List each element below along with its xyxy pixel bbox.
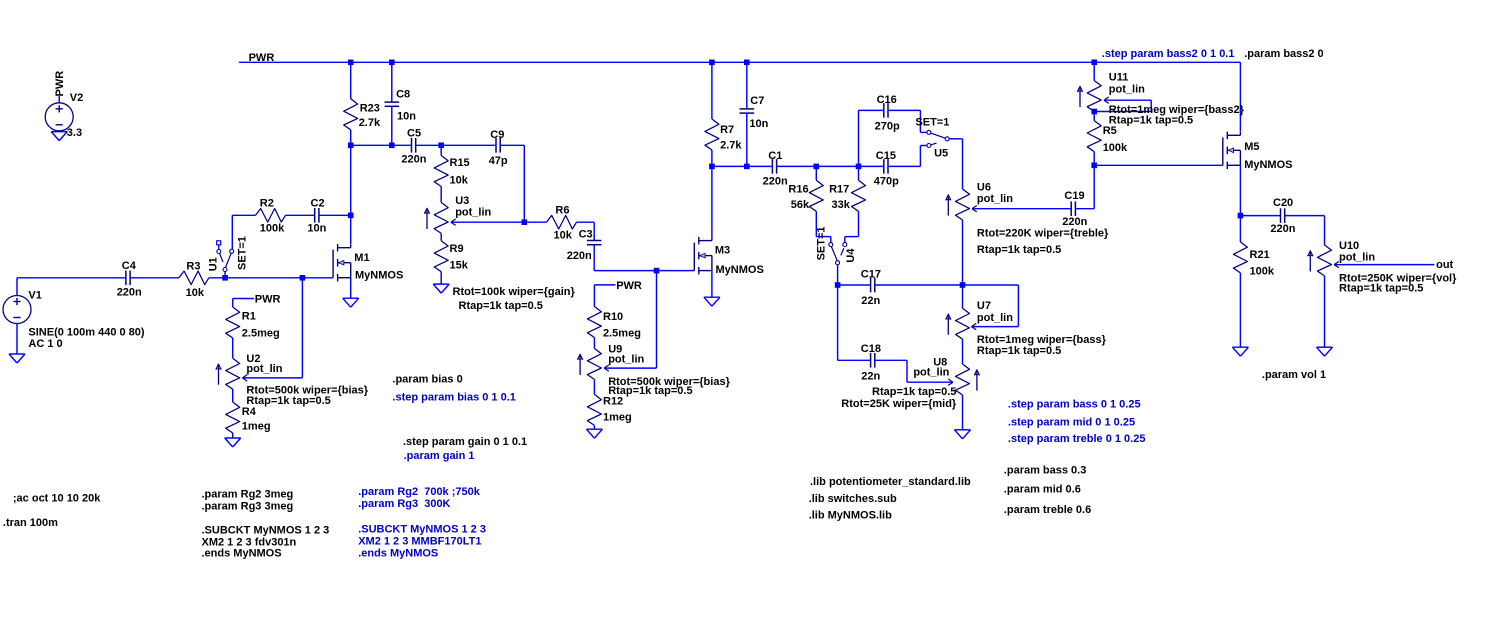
svg-text:pot_lin: pot_lin xyxy=(913,367,949,379)
wire C8 to row xyxy=(391,106,393,145)
svg-text:U4: U4 xyxy=(845,248,857,263)
wire U9 to R12 xyxy=(593,379,595,394)
wire to C15 xyxy=(859,165,884,167)
svg-text:270p: 270p xyxy=(875,120,900,132)
svg-text:C8: C8 xyxy=(396,89,410,101)
svg-text:pot_lin: pot_lin xyxy=(455,206,491,218)
wire PWR top rail xyxy=(239,61,1241,63)
wire PWR stub to R1 xyxy=(232,299,234,308)
resistor R21 xyxy=(1233,242,1247,273)
wire wiper node to R6 xyxy=(524,221,546,223)
svg-text:10k: 10k xyxy=(554,230,573,242)
wire PWR to C7 xyxy=(746,62,748,109)
svg-text:R1: R1 xyxy=(242,310,256,322)
svg-text:100k: 100k xyxy=(260,222,285,234)
resistor R15 xyxy=(434,156,448,187)
wire PWR stub to R10 xyxy=(593,285,595,307)
svg-text:U11: U11 xyxy=(1109,72,1129,84)
wire U11 wiper loop xyxy=(1105,99,1151,101)
svg-text:.lib switches.sub: .lib switches.sub xyxy=(809,493,897,505)
svg-text:15k: 15k xyxy=(450,259,469,271)
svg-text:100k: 100k xyxy=(1103,142,1128,154)
svg-text:10n: 10n xyxy=(307,222,326,234)
svg-text:Rtap=1k tap=0.5: Rtap=1k tap=0.5 xyxy=(872,386,956,398)
wire R17 top xyxy=(858,166,860,180)
svg-text:Rtap=1k tap=0.5: Rtap=1k tap=0.5 xyxy=(1109,115,1193,127)
ground at M1 xyxy=(343,297,359,299)
svg-text:pot_lin: pot_lin xyxy=(977,193,1013,205)
junction R5 bottom node xyxy=(1091,163,1097,169)
svg-text:U10: U10 xyxy=(1339,240,1359,252)
svg-text:R2: R2 xyxy=(260,198,274,210)
svg-text:.param Rg2 3meg: .param Rg2 3meg xyxy=(202,489,294,501)
svg-text:.tran 100m: .tran 100m xyxy=(3,517,58,529)
capacitor C15 xyxy=(883,159,885,174)
wire M5 node to R21 xyxy=(1239,216,1241,242)
svg-text:220n: 220n xyxy=(1270,223,1295,235)
svg-text:R21: R21 xyxy=(1250,249,1270,261)
svg-text:out: out xyxy=(1436,259,1453,271)
wire U5 to U6 xyxy=(949,138,962,140)
wire M1 source to ground xyxy=(350,278,352,299)
svg-text:R5: R5 xyxy=(1103,125,1117,137)
svg-text:.step param treble 0 1 0.25: .step param treble 0 1 0.25 xyxy=(1008,433,1146,445)
wire U6 bottom to C17 row xyxy=(962,220,964,285)
svg-text:C7: C7 xyxy=(750,95,764,107)
svg-text:V1: V1 xyxy=(28,290,41,302)
resistor R10 xyxy=(587,307,601,338)
resistor R7 xyxy=(705,119,719,150)
transistor M5 xyxy=(1226,132,1228,140)
svg-text:.step param bias 0 1 0.1: .step param bias 0 1 0.1 xyxy=(392,392,516,404)
wire U7 to U8 xyxy=(962,339,964,364)
junction M1 drain node xyxy=(348,213,354,219)
voltage source V2 xyxy=(45,103,73,131)
capacitor C17 xyxy=(870,278,872,293)
svg-text:C18: C18 xyxy=(861,343,881,355)
capacitor C19 xyxy=(1070,201,1072,216)
wire row to C5 xyxy=(351,144,412,146)
svg-text:.lib potentiometer_standard.li: .lib potentiometer_standard.lib xyxy=(810,476,971,488)
capacitor C18 xyxy=(870,353,872,368)
ground at R21 xyxy=(1232,346,1248,348)
svg-text:R6: R6 xyxy=(555,205,569,217)
svg-text:U3: U3 xyxy=(455,195,469,207)
wire U4 common to C17 row xyxy=(837,265,839,285)
resistor R1 xyxy=(226,307,240,338)
junction R17/C16 top xyxy=(856,164,862,170)
svg-text:C2: C2 xyxy=(311,198,325,210)
ground at U8 xyxy=(955,429,971,431)
svg-text:SINE(0 100m 440 0 80): SINE(0 100m 440 0 80) xyxy=(28,327,145,339)
wire R9 to ground xyxy=(440,272,442,284)
wire M5 source down xyxy=(1239,165,1241,215)
junction R23 bottom row xyxy=(348,143,354,149)
svg-text:C4: C4 xyxy=(122,260,137,272)
junction R15 top node xyxy=(438,143,444,149)
svg-text:R23: R23 xyxy=(360,103,380,115)
switch U1 xyxy=(224,272,226,278)
svg-text:56k: 56k xyxy=(791,199,810,211)
svg-text:.ends MyNMOS: .ends MyNMOS xyxy=(358,547,438,559)
svg-text:Rtap=1k tap=0.5: Rtap=1k tap=0.5 xyxy=(1339,283,1423,295)
potentiometer U3 xyxy=(434,202,448,233)
transistor M1 xyxy=(337,244,339,252)
junction U4 common C17 row xyxy=(835,282,841,288)
svg-text:SET=1: SET=1 xyxy=(915,116,949,128)
ground at R12 xyxy=(586,428,602,430)
junction R16 top xyxy=(814,164,820,170)
junction PWR-C8 xyxy=(389,60,395,66)
wire C20 to U10 xyxy=(1285,215,1325,217)
wire PWR to U11 xyxy=(1093,62,1095,80)
potentiometer U8 xyxy=(956,364,970,395)
wire U1 to R2 branch xyxy=(231,215,233,249)
resistor R17 xyxy=(852,180,866,211)
wire U10 wiper to out xyxy=(1335,264,1434,266)
wire U7 wiper loop xyxy=(963,284,1019,286)
svg-text:Rtap=1k tap=0.5: Rtap=1k tap=0.5 xyxy=(246,395,330,407)
svg-text:1meg: 1meg xyxy=(603,411,632,423)
wire C4 to R3 xyxy=(130,277,179,279)
capacitor C9 xyxy=(495,138,497,153)
potentiometer U9 xyxy=(587,348,601,379)
svg-text:R4: R4 xyxy=(242,406,257,418)
wire node A to M1 gate xyxy=(225,277,302,279)
svg-text:.param Rg3 300K: .param Rg3 300K xyxy=(358,498,450,510)
svg-text:.param mid 0.6: .param mid 0.6 xyxy=(1004,483,1081,495)
svg-text:pot_lin: pot_lin xyxy=(608,354,644,366)
wire R16 to U4 left throw xyxy=(815,211,817,236)
junction R7 tone rail xyxy=(709,164,715,170)
wire node to R15 xyxy=(440,145,442,155)
capacitor C4 xyxy=(125,271,127,286)
wire to C18 xyxy=(838,359,871,361)
resistor R23 xyxy=(344,99,358,130)
svg-text:pot_lin: pot_lin xyxy=(1339,251,1375,263)
svg-text:R10: R10 xyxy=(603,311,623,323)
resistor R16 xyxy=(809,180,823,211)
wire C18 to U8 wiper xyxy=(875,359,907,361)
resistor R5 xyxy=(1087,121,1101,152)
wire R23 to row node xyxy=(350,130,352,146)
svg-text:C3: C3 xyxy=(579,228,593,240)
wire C15 to U5 xyxy=(888,165,920,167)
wire tone rail xyxy=(712,165,773,167)
junction C8 bottom row xyxy=(389,143,395,149)
wire U2 wiper from bias tap xyxy=(301,278,303,378)
ground at R4 xyxy=(225,437,241,439)
svg-text:.param Rg2 700k ;750k: .param Rg2 700k ;750k xyxy=(358,486,481,498)
wire PWR to R23 xyxy=(350,62,352,99)
wire R1 to U2 xyxy=(232,338,234,358)
svg-text:2.7k: 2.7k xyxy=(359,117,381,129)
svg-text:R7: R7 xyxy=(720,124,734,136)
svg-text:C1: C1 xyxy=(768,150,782,162)
svg-text:R12: R12 xyxy=(603,396,623,408)
svg-text:M1: M1 xyxy=(354,252,369,264)
capacitor C2 xyxy=(314,208,316,223)
svg-text:220n: 220n xyxy=(763,176,788,188)
svg-text:M5: M5 xyxy=(1244,141,1259,153)
switch U4 xyxy=(829,243,833,247)
wire R16 node to R17 node xyxy=(816,165,858,167)
wire C16 branch up xyxy=(858,110,860,166)
wire R10 to U9 xyxy=(593,338,595,349)
svg-text:.param bass 0.3: .param bass 0.3 xyxy=(1004,465,1087,477)
junction C7 tone rail xyxy=(744,164,750,170)
wire C3 to M3 gate xyxy=(593,245,595,271)
wire C5 to R15 node xyxy=(416,144,442,146)
capacitor C1 xyxy=(771,159,773,174)
svg-text:C9: C9 xyxy=(490,129,504,141)
svg-text:R3: R3 xyxy=(186,261,200,273)
resistor R9 xyxy=(434,241,448,272)
svg-text:Rtot=1meg wiper={bass}: Rtot=1meg wiper={bass} xyxy=(977,334,1107,346)
svg-text:.param bias 0: .param bias 0 xyxy=(392,374,462,386)
svg-text:Rtot=220K wiper={treble}: Rtot=220K wiper={treble} xyxy=(977,228,1109,240)
svg-text:47p: 47p xyxy=(489,155,508,167)
svg-text:C20: C20 xyxy=(1273,197,1293,209)
svg-text:.param treble 0.6: .param treble 0.6 xyxy=(1004,504,1091,516)
svg-text:V2: V2 xyxy=(70,92,83,104)
svg-text:.step param mid 0 1 0.25: .step param mid 0 1 0.25 xyxy=(1008,416,1135,428)
wire C7 to tone rail xyxy=(746,113,748,166)
wire R15 to U3 xyxy=(440,187,442,203)
capacitor C3 xyxy=(587,240,602,242)
svg-text:R16: R16 xyxy=(788,184,808,196)
wire R5 to M5 gate node xyxy=(1093,152,1095,166)
svg-text:.SUBCKT MyNMOS 1 2 3: .SUBCKT MyNMOS 1 2 3 xyxy=(202,524,330,536)
svg-text:SET=1: SET=1 xyxy=(815,226,827,260)
svg-text:2.5meg: 2.5meg xyxy=(603,328,641,340)
junction M3 bias tap xyxy=(654,268,660,274)
wire PWR to C8 xyxy=(391,62,393,102)
svg-text:U7: U7 xyxy=(977,300,991,312)
svg-text:MyNMOS: MyNMOS xyxy=(716,264,764,276)
node A junction (signal after R3) xyxy=(222,275,228,281)
wire U4 to C17 xyxy=(838,284,871,286)
potentiometer U6 xyxy=(956,189,970,220)
capacitor C7 xyxy=(740,108,755,110)
transistor M3 xyxy=(698,237,700,245)
junction bias tap node xyxy=(300,275,306,281)
svg-text:.step param gain 0 1 0.1: .step param gain 0 1 0.1 xyxy=(403,436,527,448)
svg-text:.lib MyNMOS.lib: .lib MyNMOS.lib xyxy=(809,509,892,521)
svg-text:R17: R17 xyxy=(829,184,849,196)
wire R6 to C3 xyxy=(577,221,595,223)
svg-text:Rtot=100k wiper={gain}: Rtot=100k wiper={gain} xyxy=(453,286,576,298)
svg-text:AC 1 0: AC 1 0 xyxy=(28,338,62,350)
svg-text:10k: 10k xyxy=(450,175,469,187)
wire R21 to ground xyxy=(1239,273,1241,347)
svg-text:;ac oct 10 10 20k: ;ac oct 10 10 20k xyxy=(13,492,101,504)
wire C1 to R16 node xyxy=(777,165,817,167)
wire PWR to R7 xyxy=(711,62,713,119)
capacitor C5 xyxy=(411,138,413,153)
capacitor C20 xyxy=(1280,208,1282,223)
ground at V2 xyxy=(51,131,67,133)
potentiometer U2 xyxy=(226,358,240,389)
junction PWR-R23 xyxy=(348,60,354,66)
ground at U10 xyxy=(1317,346,1333,348)
svg-text:.param bass2 0: .param bass2 0 xyxy=(1244,48,1324,60)
svg-text:Rtap=1k tap=0.5: Rtap=1k tap=0.5 xyxy=(977,244,1061,256)
node PWR stub (R1) xyxy=(233,298,254,300)
wire V1 to C4 xyxy=(17,277,126,279)
wire C16 to U5 xyxy=(888,109,920,111)
wire R12 to ground xyxy=(593,425,595,429)
svg-text:PWR: PWR xyxy=(255,293,281,305)
wire R3 to node A xyxy=(209,277,225,279)
wire U3 wiper xyxy=(452,221,524,223)
svg-text:C5: C5 xyxy=(407,127,421,139)
svg-text:3.3: 3.3 xyxy=(67,127,82,139)
wire U9 wiper from M3 bias tap xyxy=(656,271,658,369)
svg-text:470p: 470p xyxy=(874,176,899,188)
svg-text:2.7k: 2.7k xyxy=(720,139,742,151)
switch U5 xyxy=(927,130,931,134)
potentiometer U7 xyxy=(956,308,970,339)
svg-text:C17: C17 xyxy=(861,269,881,281)
svg-text:.step param bass 0 1 0.25: .step param bass 0 1 0.25 xyxy=(1008,399,1141,411)
junction M5 source node xyxy=(1238,213,1244,219)
svg-text:MyNMOS: MyNMOS xyxy=(1244,159,1292,171)
svg-text:U1: U1 xyxy=(207,257,219,271)
svg-text:10n: 10n xyxy=(397,110,416,122)
svg-text:10n: 10n xyxy=(749,118,768,130)
wire R7 to tone rail xyxy=(711,150,713,166)
wire M3 drain vertical xyxy=(711,166,713,237)
wire C19 to R5 node xyxy=(1075,208,1094,210)
resistor R3 xyxy=(179,271,209,285)
ground at M3 xyxy=(704,296,720,298)
wire to M5 gate xyxy=(1094,164,1223,166)
capacitor C16 xyxy=(883,103,885,118)
svg-text:.ends MyNMOS: .ends MyNMOS xyxy=(202,547,282,559)
potentiometer U11 xyxy=(1087,81,1101,112)
svg-text:C16: C16 xyxy=(877,94,897,106)
svg-text:XM2 1 2 3 MMBF170LT1: XM2 1 2 3 MMBF170LT1 xyxy=(358,535,481,547)
ground at V1 xyxy=(9,353,25,355)
svg-text:pot_lin: pot_lin xyxy=(977,312,1013,324)
svg-text:1meg: 1meg xyxy=(242,420,271,432)
svg-text:10k: 10k xyxy=(186,287,205,299)
svg-text:PWR: PWR xyxy=(54,71,66,97)
resistor R2 xyxy=(256,209,286,223)
svg-text:22n: 22n xyxy=(861,370,880,382)
svg-text:U6: U6 xyxy=(977,181,991,193)
wire R17 to U4 right throw xyxy=(858,211,860,236)
svg-text:MyNMOS: MyNMOS xyxy=(355,269,403,281)
capacitor C8 xyxy=(385,101,400,103)
svg-text:220n: 220n xyxy=(117,287,142,299)
ground at R9 xyxy=(433,283,449,285)
wire R15 node to C9 xyxy=(441,144,496,146)
svg-text:C19: C19 xyxy=(1064,190,1084,202)
potentiometer U10 xyxy=(1318,245,1332,276)
svg-text:Rtot=25K wiper={mid}: Rtot=25K wiper={mid} xyxy=(841,398,957,410)
resistor R12 xyxy=(587,394,601,425)
wire U8 to ground xyxy=(962,395,964,430)
wire M3 source to ground xyxy=(711,271,713,298)
wire C9 to wiper corner xyxy=(500,144,524,146)
svg-text:.param gain 1: .param gain 1 xyxy=(404,450,475,462)
svg-text:220n: 220n xyxy=(567,250,592,262)
wire U7 top pin xyxy=(962,285,964,308)
wire R16 top xyxy=(815,166,817,180)
junction PWR-U11 xyxy=(1091,60,1097,66)
wire U10 to ground xyxy=(1324,276,1326,347)
wire U11 to R5 xyxy=(1093,112,1095,121)
wire C17 row down to C18 row xyxy=(837,285,839,360)
svg-text:Rtap=1k tap=0.5: Rtap=1k tap=0.5 xyxy=(977,345,1061,357)
wire M5 drain drop from PWR rail xyxy=(1239,62,1241,131)
svg-text:33k: 33k xyxy=(832,199,851,211)
svg-text:.SUBCKT MyNMOS 1 2 3: .SUBCKT MyNMOS 1 2 3 xyxy=(358,523,486,535)
junction U11 bottom node xyxy=(1091,109,1097,115)
junction PWR-R7 xyxy=(709,60,715,66)
svg-text:pot_lin: pot_lin xyxy=(1109,84,1145,96)
svg-text:220n: 220n xyxy=(401,154,426,166)
svg-text:.param Rg3 3meg: .param Rg3 3meg xyxy=(202,501,294,513)
svg-text:M3: M3 xyxy=(715,245,730,257)
junction U6/U7 node xyxy=(960,282,966,288)
junction U3 wiper node xyxy=(522,219,528,225)
svg-text:2.5meg: 2.5meg xyxy=(242,328,280,340)
svg-text:R15: R15 xyxy=(450,157,470,169)
junction PWR-C7 xyxy=(744,60,750,66)
resistor R6 xyxy=(547,215,577,229)
svg-text:100k: 100k xyxy=(1250,266,1275,278)
voltage source V1 xyxy=(3,296,31,324)
svg-text:SET=1: SET=1 xyxy=(237,236,249,270)
wire M1 drain vertical xyxy=(350,145,352,244)
wire C17 to U7 node xyxy=(875,284,963,286)
wire R2 to C2 xyxy=(286,214,315,216)
wire U3 to R9 xyxy=(440,233,442,240)
svg-text:220n: 220n xyxy=(1062,216,1087,228)
wire C2 to M1 drain node xyxy=(319,214,351,216)
node PWR stub (R10) xyxy=(594,284,615,286)
svg-text:.param vol 1: .param vol 1 xyxy=(1262,369,1326,381)
svg-text:pot_lin: pot_lin xyxy=(246,363,282,375)
svg-text:R9: R9 xyxy=(450,243,464,255)
svg-text:Rtap=1k tap=0.5: Rtap=1k tap=0.5 xyxy=(459,300,543,312)
svg-text:PWR: PWR xyxy=(616,280,642,292)
wire to C20 xyxy=(1240,215,1280,217)
svg-text:U5: U5 xyxy=(934,148,948,160)
wire U6 wiper to C19 xyxy=(973,208,1071,210)
svg-text:22n: 22n xyxy=(861,295,880,307)
svg-text:C15: C15 xyxy=(876,150,896,162)
resistor R4 xyxy=(226,402,240,433)
svg-text:.step param bass2 0 1 0.1: .step param bass2 0 1 0.1 xyxy=(1102,48,1235,60)
wire U2 to R4 xyxy=(232,389,234,402)
wire R4 to ground xyxy=(232,433,234,438)
